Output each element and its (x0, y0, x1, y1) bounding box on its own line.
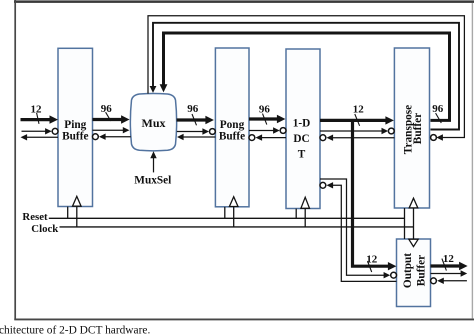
wire input enable into Ping bubble (22, 128, 58, 134)
wire Transpose-Output clock vertical (413, 208, 415, 239)
bus label 12 DCT-Transpose (353, 103, 365, 126)
svg-text:chitecture of 2-D DCT hardware: chitecture of 2-D DCT hardware. (0, 325, 150, 335)
wire Reset line (49, 217, 405, 219)
wire Ping reset stub (67, 207, 69, 219)
clock triangle Ping (73, 196, 82, 206)
clock triangle Transpose (409, 198, 418, 208)
svg-text:T: T (298, 149, 306, 161)
feedback wire thin outer loop Mux top to Transpose bubble (148, 16, 464, 141)
wire Transpose to DCT bubble (320, 135, 394, 141)
wire Pong clock stub (233, 207, 235, 227)
wire DCT to Output bubble handshake (320, 179, 397, 278)
clock triangle DCT (301, 197, 310, 208)
wire DCT to Transpose data bus thick (320, 116, 394, 124)
svg-text:96: 96 (259, 104, 271, 116)
svg-text:96: 96 (187, 103, 199, 115)
bus label 96 Ping-Mux (101, 103, 113, 121)
block Output Buffer (397, 239, 431, 307)
svg-text:Ping: Ping (64, 119, 86, 131)
svg-text:12: 12 (443, 253, 455, 265)
wire input data bus thick (21, 115, 59, 123)
wire Output valid out thin (431, 270, 468, 276)
frame bottom line (14, 318, 474, 320)
svg-text:Mux: Mux (142, 116, 166, 130)
clock triangle Output inverted (409, 239, 418, 246)
wire Pong to DCT bubble (249, 127, 286, 133)
bus label 12 input (31, 103, 43, 124)
bus label 96 Pong-DCT (259, 104, 271, 125)
frame right line (471, 3, 473, 319)
wire DCT clock stub (304, 209, 306, 227)
svg-text:Buffe: Buffe (62, 130, 88, 142)
feedback wire middle Transpose to Mux (150, 23, 459, 130)
wire Mux to Pong bubble (177, 128, 216, 134)
mux U1 (130, 93, 176, 150)
svg-text:1-D: 1-D (293, 118, 311, 130)
svg-text:96: 96 (432, 103, 444, 115)
block Pong Buffer (215, 48, 249, 207)
wire Pong to DCT data bus thick (249, 115, 285, 123)
bus label 96 Transpose feedback (432, 103, 444, 123)
svg-text:Buffe: Buffe (219, 130, 245, 142)
wire Mux to Pong data bus thick (177, 116, 214, 124)
wire Mux to Ping bubble (93, 134, 131, 140)
clock triangle Pong (229, 197, 238, 207)
feedback wire thick Transpose 96 bus to Mux (160, 33, 450, 120)
svg-text:Reset: Reset (22, 211, 48, 223)
wire DCT reset stub (295, 209, 297, 219)
wire Pong to Mux thin (177, 134, 215, 140)
wire Ping clock stub (76, 207, 78, 227)
wire DCT to Transpose bubble (320, 128, 394, 134)
svg-text:Pong: Pong (220, 119, 245, 131)
MuxSel input arrow (150, 151, 156, 172)
wire Clock line (60, 226, 414, 228)
block Transpose Buffer (394, 48, 429, 208)
bus label 12 Output input (366, 253, 378, 272)
wire DCT tap down to Output thick (353, 119, 397, 270)
svg-text:Output: Output (402, 253, 414, 288)
wire Ping to Mux thin (93, 127, 130, 133)
svg-text:Buffer: Buffer (412, 113, 424, 144)
wire external to Output bubble (431, 278, 467, 284)
wire Pong reset stub (224, 207, 226, 218)
svg-text:Buffer: Buffer (416, 255, 428, 286)
wire Transpose-Output reset vertical (404, 208, 406, 239)
svg-text:MuxSel: MuxSel (134, 174, 171, 186)
wire Ping to Mux data bus thick (93, 115, 130, 123)
block Ping Buffer (58, 48, 93, 206)
frame left line (14, 0, 16, 320)
wire Output to DCT bubble handshake (320, 182, 397, 281)
bus label 12 output (442, 253, 455, 271)
frame top bar (14, 0, 474, 3)
wire Output data bus out thick (431, 262, 468, 270)
block 1-D DCT (286, 49, 320, 209)
svg-text:DC: DC (293, 133, 309, 145)
svg-text:12: 12 (353, 103, 365, 115)
svg-text:Clock: Clock (31, 223, 58, 235)
bus label 96 Mux-Pong (187, 103, 199, 125)
wire Ping output left (21, 134, 59, 140)
wire DCT to Pong bubble (249, 134, 286, 140)
